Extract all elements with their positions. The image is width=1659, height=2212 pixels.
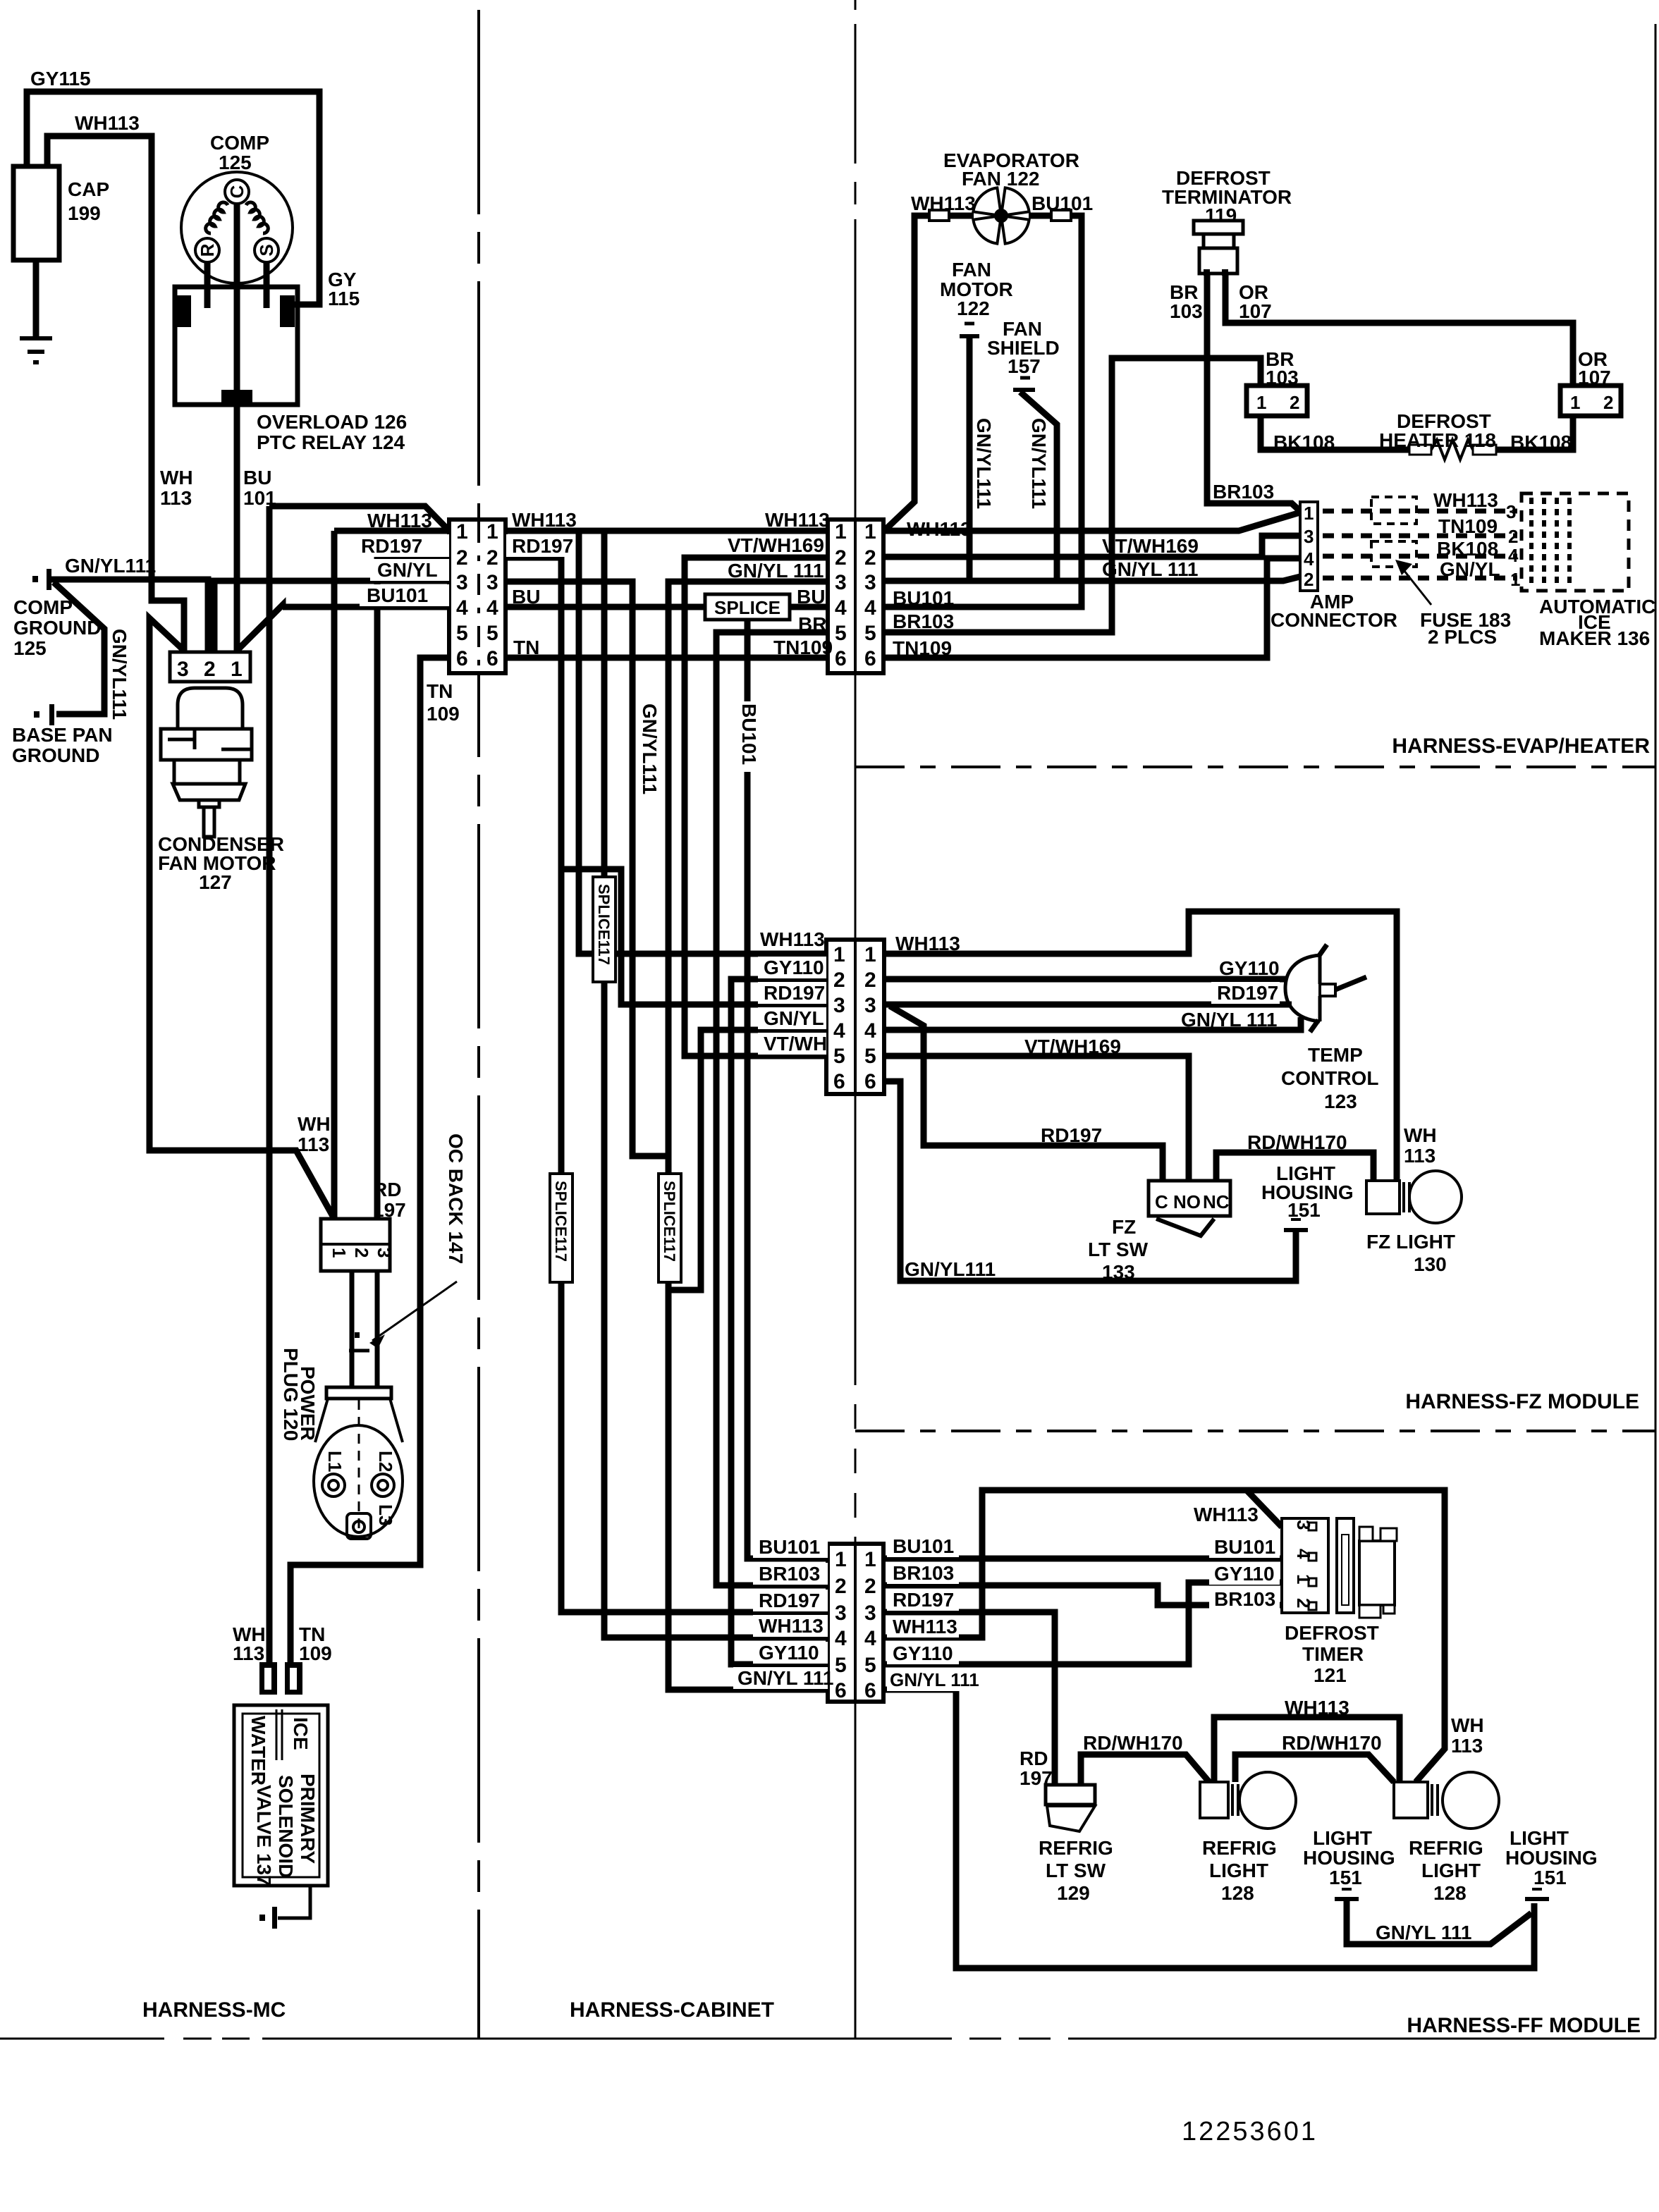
svg-text:5: 5: [486, 622, 498, 645]
svg-text:TN109: TN109: [1438, 515, 1498, 537]
wire GN/YL111: splice 117 to connector D pin6: [668, 1282, 828, 1690]
svg-text:WH113: WH113: [893, 1616, 957, 1638]
svg-text:4: 4: [1304, 548, 1314, 570]
svg-text:2: 2: [204, 658, 216, 681]
wire: harness boundary EVAP/FZ (horizontal y1088): [855, 766, 1655, 768]
wire TN109: connector B pin6 to AMP pin4: [883, 558, 1300, 658]
svg-text:113: 113: [1451, 1735, 1483, 1757]
wire RD197: tap to FZ switch C: [890, 1006, 1163, 1181]
svg-text:COMP: COMP: [210, 132, 269, 154]
wire: FUSE 183 pointer arrow: [1399, 564, 1431, 605]
svg-text:WH113: WH113: [75, 112, 140, 134]
node BU101 boxed label (A left): [360, 584, 449, 606]
svg-text:SOLENOID: SOLENOID: [275, 1775, 297, 1878]
thermostat DEFROST TERMINATOR 119: [1194, 221, 1243, 276]
svg-text:TN109: TN109: [893, 637, 952, 659]
lamp REFRIG LIGHT 128 (first) bulb: [1239, 1772, 1296, 1829]
svg-text:SPLICE117: SPLICE117: [661, 1181, 678, 1262]
switch: FZ LT SW actuator flap: [1156, 1219, 1214, 1236]
svg-text:FZ: FZ: [1112, 1216, 1136, 1238]
connector: condenser fan motor plug 3-2-1: [170, 652, 250, 682]
svg-text:BU: BU: [797, 586, 825, 608]
node GN/YL111 boxed label (D left): [733, 1667, 828, 1689]
wire GY110: connector C pin2 south to connector D pin5: [731, 979, 828, 1664]
wire GN/YL111: housing 1 ground to housing 2 ground: [1347, 1899, 1531, 1944]
svg-text:6: 6: [835, 647, 847, 670]
svg-text:GN/YL 111: GN/YL 111: [1376, 1922, 1471, 1943]
svg-text:1: 1: [1510, 569, 1520, 590]
wire WH113: connector C pin1 loop to FZ light: [884, 911, 1397, 1181]
wire BU101: evaporator fan right leg to connector B pin4: [883, 216, 1082, 607]
svg-text:4: 4: [486, 596, 498, 620]
ground: valve ground symbol: [272, 1907, 277, 1929]
svg-text:WH113: WH113: [512, 509, 577, 531]
node GN/YL boxed label (C left): [758, 1007, 826, 1029]
svg-text:WH: WH: [1451, 1714, 1484, 1736]
svg-text:BU101: BU101: [738, 703, 760, 765]
svg-text:6: 6: [486, 647, 498, 670]
svg-text:S: S: [256, 244, 277, 256]
wire BK108: resistor to OR107 connector: [1496, 416, 1573, 450]
node BR103 boxed label (D left): [753, 1563, 828, 1585]
svg-text:4: 4: [833, 1019, 845, 1043]
svg-text:MAKER 136: MAKER 136: [1539, 627, 1650, 649]
wire WH113: connector D pin4 to defrost timer pin3 and refrig light: [883, 1490, 1282, 1638]
svg-text:101: 101: [243, 487, 276, 509]
svg-text:LIGHT: LIGHT: [1510, 1827, 1569, 1849]
svg-text:4: 4: [864, 1627, 876, 1650]
svg-text:WH: WH: [160, 467, 193, 489]
svg-text:1: 1: [833, 943, 845, 966]
wire RD/WH170: refrig light 1 to refrig light 2: [1235, 1755, 1394, 1782]
svg-text:GY110: GY110: [1214, 1563, 1275, 1585]
wire GN/YL111: connector C pin6 to FZ light housing ground: [884, 1081, 1296, 1281]
svg-text:RD/WH170: RD/WH170: [1247, 1131, 1347, 1153]
svg-text:2: 2: [1304, 569, 1314, 590]
svg-text:RD197: RD197: [893, 1589, 954, 1611]
node BU101 boxed label (timer): [1209, 1537, 1280, 1558]
svg-text:3: 3: [833, 994, 845, 1017]
svg-text:122: 122: [957, 297, 990, 319]
wire: harness divider MC/CABINET (dash-dot vertical x679): [477, 10, 480, 2039]
svg-text:197: 197: [1020, 1767, 1053, 1789]
wire BU101: connector A pin4 to splice: [506, 604, 708, 610]
svg-text:FZ LIGHT: FZ LIGHT: [1366, 1231, 1455, 1253]
wire RD197: connector A pin2 east then south: [506, 558, 561, 1174]
svg-text:123: 123: [1324, 1090, 1357, 1112]
fuse FUSE 183 (BK108): [1371, 541, 1416, 567]
svg-text:GN/YL111: GN/YL111: [905, 1258, 996, 1280]
wire WH113: refrig light 1 to refrig light 2: [1214, 1717, 1400, 1782]
terminal: TN109 plug terminal: [285, 1662, 302, 1695]
valve: ICE WATER VALVE PRIMARY SOLENOID 137: [234, 1705, 328, 1886]
svg-text:CAP: CAP: [68, 178, 109, 200]
svg-text:151: 151: [1533, 1867, 1567, 1888]
svg-text:BU: BU: [243, 467, 271, 489]
svg-text:SPLICE117: SPLICE117: [552, 1181, 570, 1262]
svg-text:2: 2: [1508, 526, 1518, 547]
wire WH113: connector B pin1 east to AMP pin1: [883, 512, 1300, 531]
svg-text:CONNECTOR: CONNECTOR: [1271, 609, 1397, 631]
svg-text:6: 6: [864, 1070, 876, 1093]
svg-text:3: 3: [374, 1248, 395, 1258]
svg-text:RD197: RD197: [512, 535, 573, 557]
svg-text:TN109: TN109: [773, 637, 833, 658]
wire BR103: connector B pin5 up and east to heater connector: [883, 358, 1261, 632]
node RD197 boxed label (D left): [753, 1590, 828, 1611]
svg-text:107: 107: [1578, 367, 1611, 388]
wire VT/WH169: connector B pin2 to AMP pin3: [883, 536, 1300, 557]
svg-text:GROUND: GROUND: [12, 744, 99, 766]
svg-text:BR103: BR103: [893, 1562, 954, 1584]
svg-text:1: 1: [456, 520, 468, 543]
wire: valve to ground: [278, 1886, 310, 1918]
wire WH113: long vertical to power plug terminal: [267, 506, 273, 1664]
svg-text:PRIMARY: PRIMARY: [297, 1774, 319, 1864]
svg-text:BU101: BU101: [1031, 192, 1093, 214]
svg-text:CONTROL: CONTROL: [1281, 1067, 1378, 1089]
wire TN109: connector A pin6 to connector B pin6: [506, 655, 828, 661]
svg-text:5: 5: [456, 622, 468, 645]
svg-text:GN/YL111: GN/YL111: [973, 418, 995, 509]
svg-text:5: 5: [864, 1045, 876, 1068]
svg-text:129: 129: [1057, 1882, 1090, 1904]
wire GN/YL111: connector B pin3 west then south: [668, 582, 828, 1174]
svg-text:WH113: WH113: [895, 933, 960, 954]
node BU101 vertical label (cabinet): [737, 701, 759, 772]
node GY110 boxed label (D left): [753, 1642, 828, 1664]
wire RD/WH170: switch to refrig light 1: [1081, 1755, 1209, 1785]
winding: C-S coil: [246, 202, 268, 233]
ground: fan motor 122 ground: [965, 322, 974, 326]
svg-text:BR103: BR103: [1214, 1588, 1275, 1610]
svg-text:4: 4: [456, 596, 468, 620]
svg-text:TN: TN: [427, 680, 453, 702]
svg-text:HOUSING: HOUSING: [1505, 1847, 1598, 1869]
svg-text:WH: WH: [1404, 1124, 1437, 1146]
wire OR107: defrost terminator right leg to heater connector 2: [1225, 274, 1573, 386]
svg-text:1: 1: [486, 520, 498, 543]
svg-text:2: 2: [1290, 392, 1299, 413]
svg-text:3: 3: [864, 994, 876, 1017]
svg-text:GY110: GY110: [893, 1642, 953, 1664]
svg-text:5: 5: [835, 1654, 847, 1677]
wire: dashed TN109 row into ice maker: [1323, 534, 1517, 539]
ground: FZ light housing 151: [1291, 1218, 1301, 1221]
svg-text:LT SW: LT SW: [1046, 1860, 1106, 1881]
svg-text:FAN 122: FAN 122: [962, 168, 1040, 190]
svg-text:L1: L1: [324, 1451, 345, 1472]
wire WH113: connector A pin1 to connector B pin1: [506, 528, 828, 534]
wire GN/YL111: connector D pin6 to light housings ground: [883, 1690, 1534, 1968]
wire: bottom harness boundary line y2892: [0, 2038, 1655, 2040]
svg-text:3: 3: [864, 1602, 876, 1625]
svg-text:199: 199: [68, 202, 101, 224]
svg-text:4: 4: [864, 596, 876, 620]
svg-text:PTC RELAY 124: PTC RELAY 124: [257, 431, 405, 453]
resistor: DEFROST HEATER 118 element: [1409, 440, 1496, 460]
wire GN/YL111: comp ground to motor pin2: [51, 579, 208, 651]
connector B (cabinet / evap): [828, 520, 883, 673]
svg-text:SPLICE: SPLICE: [714, 597, 780, 618]
wire GN/YL111: fan motor ground drop: [967, 338, 973, 581]
svg-text:GN/YL111: GN/YL111: [639, 703, 661, 794]
svg-text:GROUND: GROUND: [13, 617, 101, 639]
wire GN/YL111: connector B pin3 to AMP pin2: [883, 577, 1300, 581]
ground: below CAP 199: [20, 338, 52, 362]
svg-text:1: 1: [1570, 392, 1580, 413]
svg-text:2: 2: [864, 1575, 876, 1598]
svg-text:113: 113: [1404, 1145, 1435, 1167]
svg-text:RD: RD: [1020, 1747, 1048, 1769]
svg-text:4: 4: [1508, 545, 1519, 566]
svg-text:WH113: WH113: [367, 510, 432, 532]
svg-text:BK108: BK108: [1510, 431, 1572, 453]
connector: defrost timer 3-4-1-2: [1282, 1518, 1328, 1613]
ground: OC BACK 147 chassis mark: [355, 1332, 360, 1338]
svg-text:OC BACK 147: OC BACK 147: [445, 1133, 467, 1264]
lamp REFRIG LIGHT 128 (second) bulb: [1443, 1772, 1499, 1829]
node VT/WH boxed label (C left): [758, 1033, 826, 1055]
svg-text:RD197: RD197: [361, 535, 422, 557]
svg-text:GN/YL 111: GN/YL 111: [1102, 558, 1198, 580]
svg-text:GN/YL 111: GN/YL 111: [890, 1669, 979, 1690]
svg-text:GY110: GY110: [759, 1642, 819, 1664]
svg-text:3: 3: [1293, 1520, 1314, 1530]
ground: comp ground symbol: [32, 576, 38, 582]
svg-text:FAN: FAN: [952, 259, 991, 281]
svg-text:6: 6: [456, 647, 468, 670]
ground: light housing 151 (first): [1342, 1888, 1352, 1891]
splice SPLICE117 (WH113): [593, 877, 616, 982]
svg-text:GN/YL 111: GN/YL 111: [728, 560, 824, 582]
wire GN/YL111: motor pin2 up to connector A pin3: [214, 581, 449, 651]
node GY110 boxed label (C left): [758, 957, 826, 978]
svg-text:RD197: RD197: [1041, 1124, 1102, 1146]
svg-text:HARNESS-FZ MODULE: HARNESS-FZ MODULE: [1405, 1390, 1639, 1413]
connector C (cabinet / FZ module): [826, 940, 884, 1094]
terminal: WH113 plug terminal: [259, 1662, 277, 1695]
svg-text:LIGHT: LIGHT: [1313, 1827, 1372, 1849]
svg-text:128: 128: [1433, 1882, 1467, 1904]
wire: OC BACK 147 arrow: [372, 1282, 457, 1341]
svg-text:6: 6: [864, 647, 876, 670]
svg-text:12253601: 12253601: [1182, 2117, 1318, 2146]
svg-text:LIGHT: LIGHT: [1421, 1860, 1481, 1881]
lamp REFRIG LIGHT 128 (second) socket: [1394, 1782, 1428, 1818]
wire BR103: connector B pin5 west then south to connector D pin2: [716, 632, 828, 1585]
capacitor CAP 199: [13, 166, 59, 260]
svg-text:4: 4: [864, 1019, 876, 1043]
svg-text:WH113: WH113: [1433, 489, 1498, 511]
svg-text:128: 128: [1221, 1882, 1254, 1904]
wire: right page border: [1655, 24, 1657, 2039]
svg-text:1: 1: [864, 520, 876, 543]
svg-text:1: 1: [329, 1248, 350, 1258]
svg-text:119: 119: [1205, 204, 1237, 226]
node RD197 boxed label (temp control): [1211, 982, 1280, 1004]
svg-text:4: 4: [835, 1627, 847, 1650]
svg-text:VALVE 137: VALVE 137: [253, 1785, 275, 1886]
terminal: overload right tab: [280, 295, 295, 327]
motor: condenser fan motor body: [161, 688, 252, 837]
svg-text:103: 103: [1170, 300, 1203, 322]
svg-text:TEMP: TEMP: [1308, 1044, 1363, 1066]
svg-text:LIGHT: LIGHT: [1209, 1860, 1268, 1881]
ground: light housing 151 (second): [1532, 1888, 1542, 1891]
svg-text:5: 5: [835, 622, 847, 645]
wire VT/WH169: connector C pin5 to FZ switch NO: [884, 1056, 1189, 1181]
node GN/YL111 vertical label (cabinet): [638, 701, 659, 800]
svg-text:6: 6: [864, 1679, 876, 1702]
svg-text:GY115: GY115: [30, 68, 91, 90]
lamp FZ LIGHT 130 socket: [1366, 1181, 1400, 1214]
svg-text:OVERLOAD 126: OVERLOAD 126: [257, 411, 407, 433]
svg-text:5: 5: [864, 1654, 876, 1677]
wire GN/YL111: connector C pin4 to temp control: [884, 1017, 1301, 1030]
node GY110 boxed label (D right): [887, 1642, 959, 1664]
svg-text:RD/WH170: RD/WH170: [1282, 1732, 1382, 1754]
svg-text:C: C: [1155, 1191, 1168, 1212]
wire WH113: south branch through splice 117 to connector D pin4: [601, 531, 608, 877]
splice SPLICE117 (GN/YL111): [659, 1174, 681, 1282]
svg-text:C: C: [226, 185, 247, 198]
element: PTC element bar: [221, 390, 252, 403]
svg-text:6: 6: [833, 1070, 845, 1093]
svg-text:BR103: BR103: [759, 1563, 820, 1585]
svg-text:RD: RD: [373, 1179, 401, 1200]
wire GY110: connector D pin5 to defrost timer pin1: [883, 1583, 1282, 1664]
svg-text:GY110: GY110: [764, 957, 824, 978]
svg-text:BU: BU: [512, 586, 540, 608]
svg-text:REFRIG: REFRIG: [1409, 1837, 1483, 1859]
svg-text:1: 1: [231, 658, 243, 681]
svg-text:HARNESS-FF MODULE: HARNESS-FF MODULE: [1407, 2014, 1641, 2037]
wire GN/YL111: comp ground to base pan ground: [54, 582, 104, 714]
node BU101 boxed label (D right): [887, 1535, 959, 1557]
svg-text:HOUSING: HOUSING: [1303, 1847, 1395, 1869]
svg-text:2: 2: [456, 546, 468, 570]
svg-text:1: 1: [1256, 392, 1266, 413]
wire GN/YL111: fan shield ground drop: [1020, 392, 1057, 581]
node RD197 boxed label (C left): [758, 982, 826, 1004]
svg-text:WH: WH: [298, 1113, 331, 1135]
node RD197 boxed label (A right): [506, 534, 574, 557]
svg-text:BU101: BU101: [367, 584, 428, 606]
svg-text:BK108: BK108: [1437, 538, 1498, 560]
wire WH113 branch: motor pin3 to lower vertical: [149, 618, 333, 1217]
svg-text:NO: NO: [1173, 1191, 1201, 1212]
wire: cap to chassis ground: [33, 260, 39, 336]
fuse FUSE 183 (WH113): [1371, 497, 1416, 524]
svg-text:BR103: BR103: [893, 610, 954, 632]
svg-text:GY110: GY110: [1219, 957, 1280, 979]
terminal: fan left lead: [929, 210, 949, 221]
wire WH113: south branch to connector C pin1: [579, 531, 826, 954]
svg-text:VT/WH169: VT/WH169: [1024, 1036, 1121, 1057]
wire RD197: branch to connector C pin3: [561, 869, 826, 1004]
switch FZ LT SW 133: [1149, 1181, 1230, 1216]
wire: dashed GN/YL row into ice maker: [1323, 576, 1517, 581]
wire GY115: cap top to overload right tab: [27, 92, 319, 305]
svg-text:2: 2: [835, 546, 847, 570]
svg-text:3: 3: [486, 571, 498, 594]
svg-text:125: 125: [219, 152, 252, 173]
svg-text:109: 109: [427, 703, 460, 725]
node GN/YL111 boxed label (D right): [887, 1669, 965, 1691]
svg-text:PLUG 120: PLUG 120: [280, 1348, 302, 1441]
node BR103 boxed label (D right): [887, 1562, 959, 1584]
svg-text:127: 127: [199, 871, 232, 893]
wire TN109: connector A pin6 down to power plug terminal: [290, 658, 449, 1664]
connector: defrost heater BR103 1-2: [1247, 386, 1307, 416]
svg-text:BU101: BU101: [1214, 1536, 1275, 1558]
svg-text:GN/YL: GN/YL: [377, 559, 438, 581]
wire RD197: row2 from connector A pin2 down to plug connector: [377, 558, 449, 1219]
svg-text:107: 107: [1239, 300, 1272, 322]
svg-text:ICE: ICE: [290, 1717, 312, 1750]
wire GN/YL111: connector A pin3 east then south: [506, 582, 668, 1156]
node WH113 boxed label (D right): [887, 1616, 959, 1638]
wire BR103: defrost terminator left leg down to AMP pin1: [1207, 274, 1300, 511]
svg-text:2: 2: [835, 1575, 847, 1598]
svg-text:BK108: BK108: [1273, 431, 1335, 453]
svg-text:130: 130: [1414, 1253, 1447, 1275]
svg-text:1: 1: [1304, 503, 1314, 524]
svg-text:HARNESS-MC: HARNESS-MC: [142, 1998, 286, 2022]
svg-text:113: 113: [160, 487, 192, 509]
svg-text:1: 1: [864, 1548, 876, 1571]
svg-text:WH113: WH113: [907, 518, 972, 540]
svg-text:REFRIG: REFRIG: [1039, 1837, 1113, 1859]
svg-text:BU101: BU101: [893, 1535, 954, 1557]
svg-text:2 PLCS: 2 PLCS: [1428, 626, 1497, 648]
svg-text:GN/YL111: GN/YL111: [1028, 418, 1050, 509]
wire: harness boundary FZ/FF (horizontal y2030): [855, 1430, 1655, 1432]
svg-text:113: 113: [233, 1642, 264, 1664]
svg-text:VT/WH169: VT/WH169: [728, 534, 824, 556]
svg-text:1: 1: [835, 1548, 847, 1571]
svg-text:2: 2: [486, 546, 498, 570]
wire BK108: heater connector 1 to resistor: [1261, 416, 1409, 450]
svg-text:109: 109: [299, 1642, 332, 1664]
connector D (cabinet / FF module): [828, 1544, 883, 1702]
svg-text:RD/WH170: RD/WH170: [1083, 1732, 1183, 1754]
svg-text:103: 103: [1266, 367, 1299, 388]
svg-text:115: 115: [328, 288, 360, 309]
svg-text:133: 133: [1102, 1261, 1135, 1283]
svg-text:2: 2: [864, 969, 876, 992]
svg-text:BR: BR: [798, 613, 826, 635]
svg-text:3: 3: [1304, 526, 1314, 547]
svg-text:197: 197: [373, 1199, 406, 1221]
svg-text:5: 5: [833, 1045, 845, 1068]
svg-text:GN/YL: GN/YL: [764, 1007, 824, 1029]
svg-text:GN/YL111: GN/YL111: [109, 629, 130, 720]
svg-text:REFRIG: REFRIG: [1202, 1837, 1277, 1859]
svg-text:3: 3: [177, 658, 189, 681]
svg-text:WH113: WH113: [1285, 1697, 1349, 1719]
wire WH113: row1 into connector A pin1: [334, 528, 449, 534]
svg-text:DEFROST: DEFROST: [1285, 1622, 1379, 1644]
svg-text:WH113: WH113: [1194, 1504, 1259, 1525]
svg-text:1: 1: [835, 520, 847, 543]
svg-text:3: 3: [456, 571, 468, 594]
svg-text:HARNESS-EVAP/HEATER: HARNESS-EVAP/HEATER: [1392, 735, 1650, 758]
wire WH113: evaporator fan left leg to connector B pin1: [886, 216, 974, 529]
svg-text:GN/YL111: GN/YL111: [65, 555, 156, 577]
svg-text:WATER: WATER: [247, 1716, 269, 1786]
